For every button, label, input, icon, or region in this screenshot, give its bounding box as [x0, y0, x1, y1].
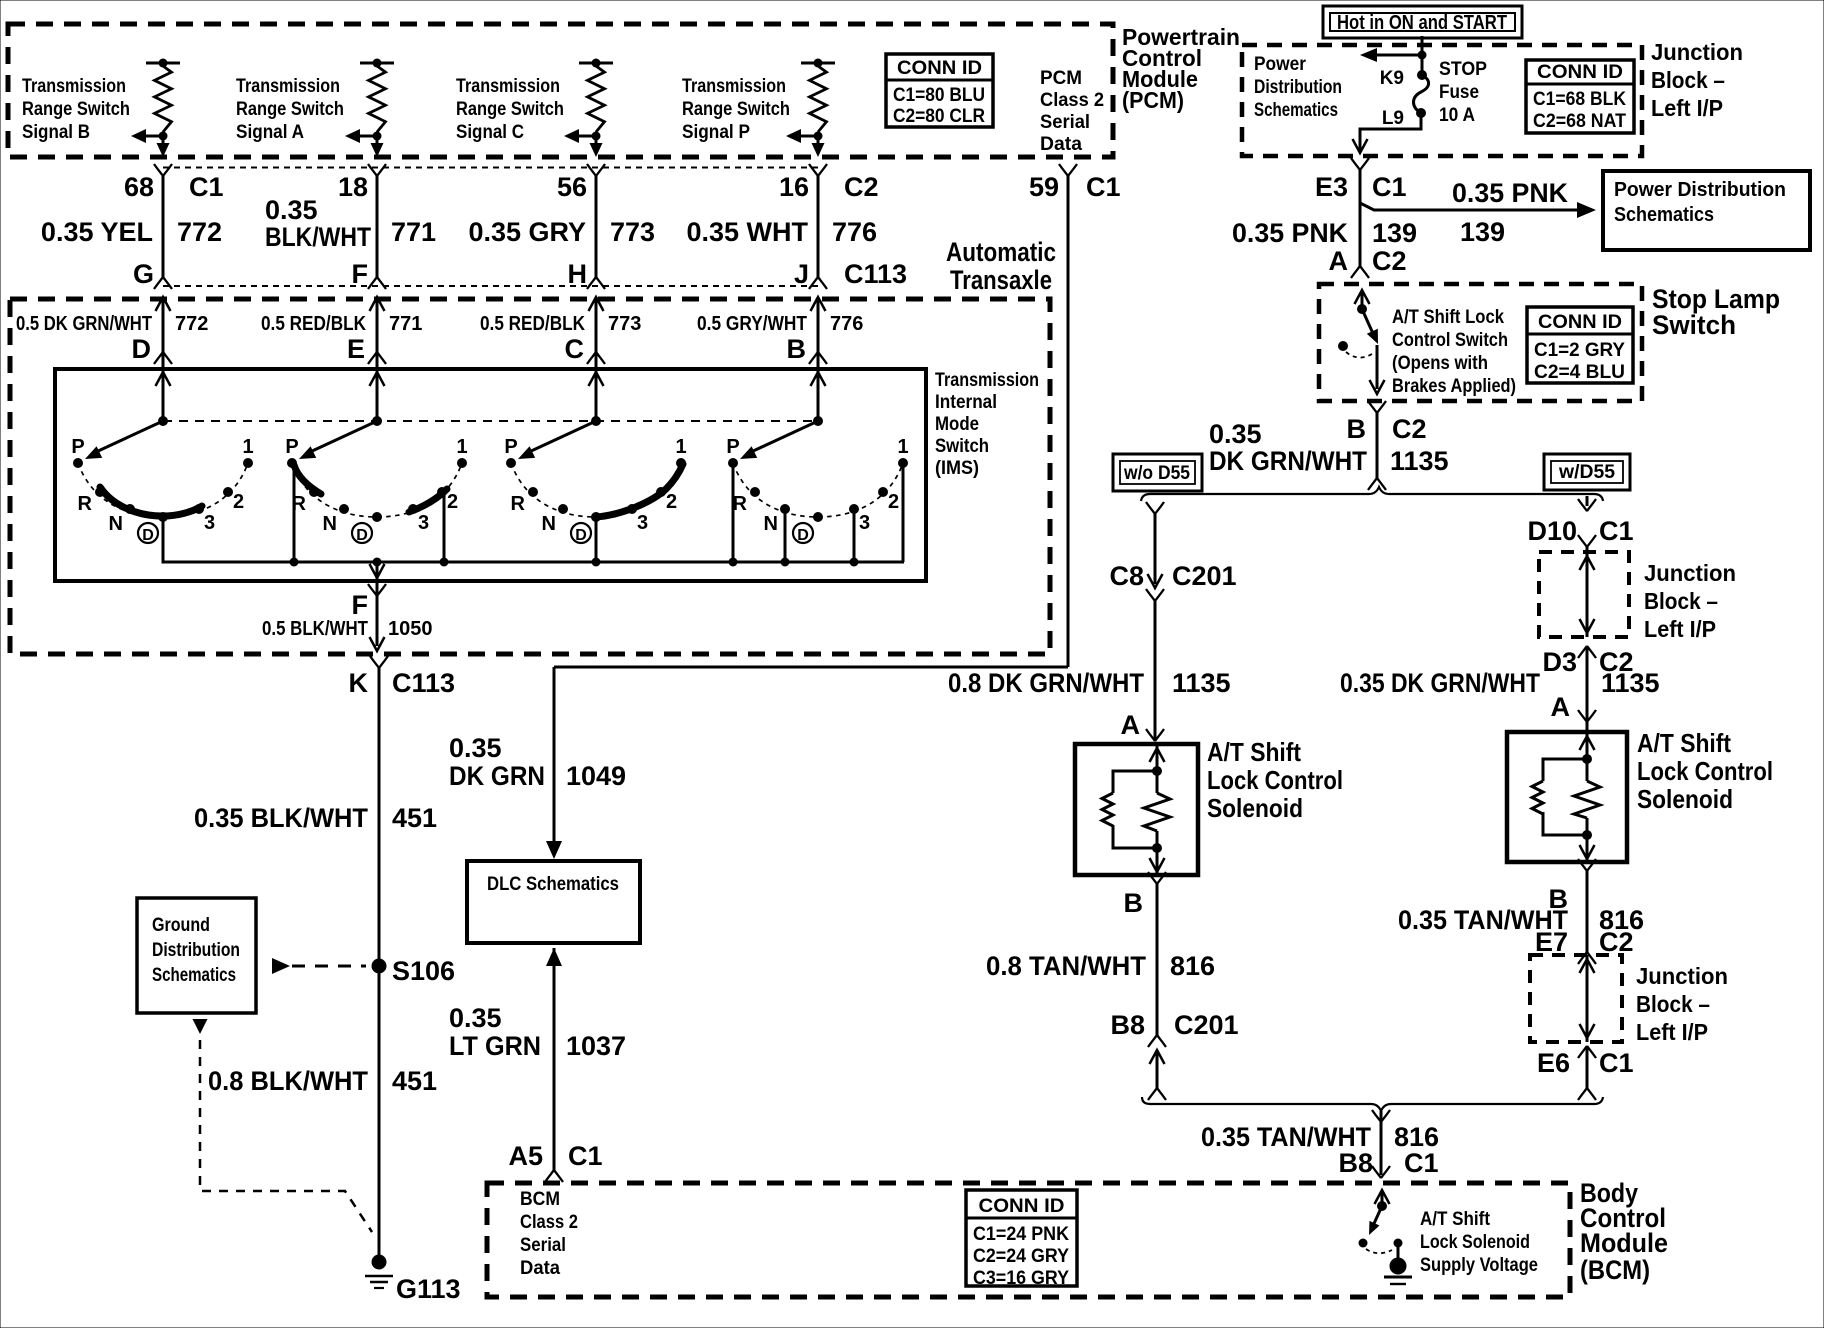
wire label 0.35 PNK 139 (branch) — [1452, 178, 1568, 247]
connector fork C (transaxle side) — [587, 352, 605, 364]
svg-text:B: B — [1124, 888, 1144, 918]
svg-text:Range Switch: Range Switch — [456, 99, 564, 120]
svg-text:139: 139 — [1372, 218, 1417, 248]
wire label 0.35 GRY 773 — [468, 217, 655, 247]
svg-text:Junction: Junction — [1644, 560, 1736, 586]
svg-text:Distribution: Distribution — [1254, 77, 1342, 98]
svg-text:2: 2 — [447, 491, 458, 513]
svg-text:D: D — [575, 527, 587, 544]
svg-text:E7: E7 — [1535, 927, 1568, 957]
label: PCM Class 2 Serial Data — [1040, 68, 1104, 155]
svg-text:Block –: Block – — [1651, 67, 1725, 93]
label: Transmission Range Switch Signal C — [456, 76, 564, 143]
svg-text:Class 2: Class 2 — [520, 1212, 578, 1233]
pin label A5 C1 — [508, 1141, 602, 1171]
svg-text:Distribution: Distribution — [152, 940, 240, 961]
wire 1050: IMS output F to K C113 — [368, 562, 386, 651]
svg-text:1135: 1135 — [1390, 446, 1449, 476]
svg-text:Data: Data — [1040, 134, 1082, 155]
svg-text:C3=16 GRY: C3=16 GRY — [973, 1268, 1069, 1289]
wire 771: PCM pin 18 to C113 pin F — [368, 164, 386, 421]
svg-text:0.35: 0.35 — [449, 733, 502, 763]
pin label 59 C1 — [1029, 172, 1121, 202]
svg-text:F: F — [352, 590, 369, 620]
Ground Distribution Schematics box — [137, 898, 256, 1013]
svg-text:(PCM): (PCM) — [1122, 87, 1184, 113]
svg-text:0.5 RED/BLK: 0.5 RED/BLK — [261, 313, 366, 335]
svg-text:C1: C1 — [189, 172, 224, 202]
pin label A C2 — [1329, 246, 1407, 276]
svg-text:P: P — [71, 436, 84, 458]
pin label E3 C1 — [1315, 172, 1407, 202]
svg-text:C1: C1 — [568, 1141, 603, 1171]
svg-text:B8: B8 — [1110, 1010, 1145, 1040]
wire label 0.35 TAN/WHT 816 — [1398, 905, 1644, 935]
svg-text:1037: 1037 — [566, 1031, 626, 1061]
wire label 0.35 LT GRN 1037 — [449, 1003, 626, 1061]
svg-text:A5: A5 — [508, 1141, 543, 1171]
svg-text:A/T Shift: A/T Shift — [1420, 1209, 1491, 1230]
svg-text:0.35 WHT: 0.35 WHT — [686, 217, 808, 247]
pin label E6 C1 — [1537, 1048, 1634, 1078]
resistor: Transmission Range Switch Signal P pull-up — [786, 59, 835, 158]
wire label 0.5 DK GRN/WHT 772 (transaxle side) — [16, 313, 208, 364]
pin label A (solenoid, w/o D55) — [1121, 710, 1141, 740]
IMS rotary switch wafer 2 (signal A): contacts P-R and 3-2 closed — [287, 369, 467, 567]
svg-text:B: B — [787, 334, 807, 364]
svg-text:0.35 PNK: 0.35 PNK — [1232, 218, 1348, 248]
svg-text:DLC Schematics: DLC Schematics — [487, 874, 619, 895]
Hot in ON and START box — [1323, 6, 1522, 38]
harness merge brace to B8 C1 — [1142, 1097, 1603, 1111]
svg-text:139: 139 — [1460, 217, 1505, 247]
svg-text:Schematics: Schematics — [1254, 100, 1338, 121]
svg-text:STOP: STOP — [1439, 59, 1487, 80]
svg-text:Solenoid: Solenoid — [1637, 784, 1733, 814]
svg-text:B8: B8 — [1338, 1148, 1373, 1178]
svg-text:A: A — [1121, 710, 1141, 740]
svg-text:0.35: 0.35 — [265, 195, 318, 225]
svg-text:3: 3 — [637, 512, 648, 534]
svg-text:Signal B: Signal B — [22, 122, 90, 143]
pin label 56 — [557, 172, 587, 202]
svg-text:BLK/WHT: BLK/WHT — [265, 222, 371, 252]
svg-text:C2=80 CLR: C2=80 CLR — [893, 106, 985, 127]
svg-text:68: 68 — [124, 172, 154, 202]
svg-text:C1=80 BLU: C1=80 BLU — [893, 85, 985, 106]
wire 1135 left branch to C8 C201 — [1146, 502, 1164, 741]
label: Junction Block - Left I/P (lower right) — [1636, 963, 1728, 1045]
svg-text:451: 451 — [392, 1066, 437, 1096]
wire: E6 C1 to merge brace — [1578, 1046, 1596, 1100]
pin label J / C113 — [794, 259, 907, 289]
svg-text:0.35: 0.35 — [1209, 419, 1262, 449]
svg-text:0.35 PNK: 0.35 PNK — [1452, 178, 1568, 208]
svg-text:Data: Data — [520, 1258, 560, 1279]
svg-text:D10: D10 — [1527, 516, 1577, 546]
pin label H / C113 — [568, 259, 588, 289]
wire 772: PCM pin 68 to C113 pin G — [154, 164, 172, 421]
wire 816: right solenoid B to E7 C2 (0.35 TAN/WHT) — [1578, 859, 1596, 964]
svg-text:Junction: Junction — [1636, 963, 1728, 989]
pin label B C2 — [1347, 414, 1427, 444]
A/T Shift Lock Control Solenoid (w/o D55) — [1075, 744, 1198, 875]
svg-text:18: 18 — [338, 172, 368, 202]
label: Transmission Internal Mode Switch (IMS) — [935, 370, 1039, 479]
IMS switch assembly box — [55, 369, 926, 581]
option tag box: w/D55 — [1544, 454, 1630, 490]
label: Junction Block - Left I/P (upper right) — [1644, 560, 1736, 642]
wire from Hot feed into fuse block — [1418, 36, 1427, 75]
pin label B (right solenoid) — [1549, 884, 1569, 914]
svg-text:1: 1 — [897, 436, 908, 458]
wire 1135: D3 C2 to solenoid A (0.35 DK GRN/WHT) — [1578, 646, 1596, 732]
svg-text:K: K — [349, 668, 369, 698]
svg-text:Internal: Internal — [935, 392, 997, 413]
svg-text:771: 771 — [389, 313, 422, 335]
svg-text:D: D — [797, 527, 809, 544]
BCM internal switch: A/T shift lock solenoid supply — [1359, 1190, 1403, 1258]
svg-text:C113: C113 — [392, 668, 455, 698]
svg-text:G: G — [133, 259, 154, 289]
svg-text:G113: G113 — [396, 1274, 461, 1304]
wire label 0.35 771 — [265, 195, 436, 252]
svg-text:772: 772 — [177, 217, 222, 247]
label: BCM Class 2 Serial Data — [520, 1189, 578, 1279]
wire 773: PCM pin 56 to C113 pin H — [587, 164, 605, 421]
ground G113 — [365, 1255, 461, 1305]
IMS rotary switch wafer 4 (signal P): open, taps P N 3 1 — [728, 369, 908, 567]
IMS internal dashed control line — [163, 420, 818, 422]
pin label K / C113 — [349, 668, 456, 698]
svg-text:2: 2 — [888, 491, 899, 513]
svg-text:Power Distribution: Power Distribution — [1614, 179, 1786, 201]
svg-text:CONN ID: CONN ID — [897, 58, 982, 79]
svg-text:LT GRN: LT GRN — [449, 1031, 541, 1061]
CONN ID box (BCM): C1=24 PNK, C2=24 GRY, C3=16 GRY — [966, 1190, 1077, 1289]
svg-text:Serial: Serial — [1040, 112, 1090, 133]
svg-text:Signal C: Signal C — [456, 122, 524, 143]
wire label 0.8 BLK/WHT 451 — [208, 1066, 437, 1096]
svg-text:F: F — [352, 259, 369, 289]
label: A/T Shift Lock Control Solenoid (left) — [1207, 737, 1343, 823]
wire 1037: BCM A5 C1 to DLC — [545, 948, 563, 1182]
svg-text:C1: C1 — [1404, 1148, 1439, 1178]
wire 1049: PCM pin 59 C1 class 2 serial data — [546, 164, 1077, 859]
svg-text:C2=24 GRY: C2=24 GRY — [973, 1246, 1069, 1267]
svg-text:R: R — [292, 493, 307, 515]
label: Junction Block - Left I/P — [1651, 39, 1743, 121]
svg-text:Range Switch: Range Switch — [22, 99, 130, 120]
svg-text:Switch: Switch — [1652, 310, 1736, 340]
svg-text:1: 1 — [675, 436, 686, 458]
pin label F — [352, 590, 369, 620]
svg-text:0.8 BLK/WHT: 0.8 BLK/WHT — [208, 1066, 368, 1096]
svg-text:Module: Module — [1580, 1228, 1668, 1258]
svg-text:C1: C1 — [1372, 172, 1407, 202]
dashed ground path from Ground Distribution box to G113 — [193, 1019, 373, 1232]
wire label 0.5 RED/BLK 771 (transaxle side) — [261, 313, 422, 364]
arrow to power distribution schematics — [1360, 48, 1422, 62]
svg-text:P: P — [285, 436, 298, 458]
svg-text:E: E — [347, 334, 365, 364]
svg-text:J: J — [794, 259, 809, 289]
wire label 0.8 DK GRN/WHT 1135 — [948, 668, 1231, 698]
svg-text:0.35 DK GRN/WHT: 0.35 DK GRN/WHT — [1340, 668, 1540, 698]
svg-text:Range Switch: Range Switch — [236, 99, 344, 120]
CONN ID box (stop lamp switch): C1=2 GRY, C2=4 BLU — [1527, 307, 1633, 383]
svg-text:Left I/P: Left I/P — [1636, 1019, 1708, 1045]
svg-text:0.5 BLK/WHT: 0.5 BLK/WHT — [262, 618, 368, 640]
svg-text:A/T Shift: A/T Shift — [1207, 737, 1301, 767]
svg-text:A/T Shift: A/T Shift — [1637, 728, 1731, 758]
svg-text:3: 3 — [859, 512, 870, 534]
svg-text:Transmission: Transmission — [682, 76, 786, 97]
BCM internal supply symbol (filled circle + ground bars) — [1384, 1258, 1412, 1285]
pin label G / C113 — [133, 259, 154, 289]
label K9 / L9 — [1380, 68, 1404, 129]
wire 776: PCM pin 16 to C113 pin J — [809, 164, 827, 421]
svg-text:Left I/P: Left I/P — [1651, 95, 1723, 121]
Body Control Module dashed box — [487, 1183, 1570, 1297]
svg-text:Solenoid: Solenoid — [1207, 793, 1303, 823]
svg-text:Control Switch: Control Switch — [1392, 330, 1508, 351]
dashed link: Ground Distribution Schematics to splice S106 — [272, 958, 366, 974]
IMS rotary switch wafer 3 (signal C): contact D-3-2-1 closed — [506, 369, 686, 567]
IMS rotary switch wafer 1 (signal B): contact R-N-D-3 closed — [73, 369, 253, 562]
Junction Block - Left I/P dashed box (D10/D3) — [1539, 552, 1629, 637]
svg-text:1135: 1135 — [1601, 668, 1660, 698]
label: Powertrain Control Module (PCM) — [1122, 24, 1240, 113]
svg-text:C2: C2 — [844, 172, 879, 202]
svg-text:Transmission: Transmission — [22, 76, 126, 97]
svg-text:10 A: 10 A — [1439, 105, 1475, 126]
svg-text:C8: C8 — [1109, 561, 1144, 591]
STOP fuse 10A (K9-L9) — [1414, 70, 1429, 118]
svg-text:B: B — [1347, 414, 1367, 444]
svg-text:0.5 GRY/WHT: 0.5 GRY/WHT — [697, 313, 807, 335]
Automatic Transaxle dashed box — [10, 299, 1050, 654]
svg-text:Serial: Serial — [520, 1235, 566, 1256]
svg-text:C113: C113 — [844, 259, 907, 289]
IMS wafer 1 position labels — [71, 436, 253, 544]
wire label 0.5 RED/BLK 773 (transaxle side) — [480, 313, 641, 364]
svg-text:CONN ID: CONN ID — [1537, 62, 1623, 83]
IMS wafer 3 position labels — [504, 436, 686, 544]
pin label C8 C201 — [1109, 561, 1236, 591]
svg-text:771: 771 — [391, 217, 436, 247]
svg-text:Transmission: Transmission — [236, 76, 340, 97]
svg-text:Lock Control: Lock Control — [1637, 756, 1773, 786]
svg-text:0.35 GRY: 0.35 GRY — [468, 217, 586, 247]
svg-text:0.35 YEL: 0.35 YEL — [41, 217, 153, 247]
svg-text:3: 3 — [204, 512, 215, 534]
svg-text:2: 2 — [666, 491, 677, 513]
svg-text:1135: 1135 — [1172, 668, 1231, 698]
svg-text:0.5 RED/BLK: 0.5 RED/BLK — [480, 313, 585, 335]
CONN ID box (PCM): C1=80 BLU, C2=80 CLR — [886, 54, 993, 127]
splice S106 — [372, 956, 456, 986]
Power Distribution Schematics box — [1603, 171, 1810, 250]
svg-text:Range Switch: Range Switch — [682, 99, 790, 120]
pin label A (solenoid, w/D55) — [1551, 692, 1571, 722]
wire 1135 right branch to D10 C1 — [1578, 496, 1596, 552]
svg-text:Class 2: Class 2 — [1040, 90, 1104, 111]
label: A/T Shift Lock Control Switch (Opens with Brakes Applied) — [1392, 307, 1516, 397]
svg-text:1: 1 — [242, 436, 253, 458]
svg-text:S106: S106 — [392, 956, 455, 986]
svg-text:A: A — [1329, 246, 1349, 276]
svg-text:R: R — [511, 493, 526, 515]
resistor: Transmission Range Switch Signal A pull-up — [345, 59, 394, 158]
svg-text:DK GRN/WHT: DK GRN/WHT — [1209, 446, 1367, 476]
Stop Lamp Switch dashed box — [1319, 284, 1642, 401]
svg-text:CONN ID: CONN ID — [1538, 312, 1622, 333]
svg-text:59: 59 — [1029, 172, 1059, 202]
label: Body Control Module (BCM) — [1580, 1178, 1668, 1285]
svg-text:E6: E6 — [1537, 1048, 1570, 1078]
svg-text:0.8 TAN/WHT: 0.8 TAN/WHT — [986, 951, 1146, 981]
A/T shift lock control switch (opens with brakes applied) — [1338, 290, 1385, 394]
svg-text:Schematics: Schematics — [1614, 204, 1714, 226]
wire 816: merged to BCM B8 C1 (0.35 TAN/WHT) — [1372, 1110, 1390, 1178]
svg-text:Block –: Block – — [1636, 991, 1710, 1017]
svg-text:Transmission: Transmission — [935, 370, 1039, 391]
svg-text:1: 1 — [456, 436, 467, 458]
svg-text:DK GRN: DK GRN — [449, 761, 545, 791]
pin label D3 C2 — [1542, 647, 1633, 677]
svg-text:451: 451 — [392, 803, 437, 833]
connector fork E (transaxle side) — [368, 352, 386, 364]
A/T Shift Lock Control Solenoid (w/D55) — [1507, 732, 1627, 862]
CONN ID box (junction block): C1=68 BLK, C2=68 NAT — [1526, 60, 1634, 133]
resistor: Transmission Range Switch Signal B pull-up — [131, 59, 180, 158]
connector bar C113 (harness side, thin dashed) — [163, 285, 818, 287]
pin label D10 C1 — [1527, 516, 1633, 546]
svg-text:Transmission: Transmission — [456, 76, 560, 97]
pin label B8 C201 — [1110, 1010, 1238, 1040]
label: Automatic Transaxle — [946, 237, 1056, 295]
svg-text:Ground: Ground — [152, 915, 210, 936]
label STOP Fuse 10 A — [1439, 59, 1487, 126]
svg-text:R: R — [78, 493, 93, 515]
svg-text:L9: L9 — [1382, 108, 1404, 129]
svg-text:D: D — [142, 527, 154, 544]
svg-text:Lock Solenoid: Lock Solenoid — [1420, 1232, 1530, 1253]
harness split brace (w/o D55 vs w/D55) — [1141, 487, 1603, 501]
connector fork D (transaxle side) — [154, 352, 172, 364]
wire label 0.35 TAN/WHT 816 (merged) — [1201, 1122, 1439, 1152]
svg-text:Switch: Switch — [935, 436, 989, 457]
svg-text:0.8 DK GRN/WHT: 0.8 DK GRN/WHT — [948, 668, 1144, 698]
svg-text:0.35: 0.35 — [449, 1003, 502, 1033]
pin label E7 C2 — [1535, 927, 1634, 957]
svg-text:Signal A: Signal A — [236, 122, 304, 143]
svg-text:P: P — [504, 436, 517, 458]
svg-text:C2=4 BLU: C2=4 BLU — [1534, 362, 1625, 383]
label: A/T Shift Lock Control Solenoid (right) — [1637, 728, 1773, 814]
svg-text:C1: C1 — [1086, 172, 1121, 202]
svg-text:C1=24 PNK: C1=24 PNK — [973, 1224, 1069, 1245]
pin label 18 — [338, 172, 368, 202]
svg-text:C1=68 BLK: C1=68 BLK — [1533, 89, 1626, 110]
pin label B (left solenoid) — [1124, 888, 1144, 918]
svg-text:Hot in ON and START: Hot in ON and START — [1337, 12, 1507, 34]
svg-text:0.5 DK GRN/WHT: 0.5 DK GRN/WHT — [16, 313, 152, 335]
svg-text:D3: D3 — [1542, 647, 1577, 677]
label: Transmission Range Switch Signal P — [682, 76, 790, 143]
svg-text:1050: 1050 — [388, 618, 433, 640]
svg-text:Schematics: Schematics — [152, 965, 236, 986]
svg-text:N: N — [764, 513, 778, 535]
wire label 0.5 BLK/WHT 1050 — [262, 618, 433, 640]
wire label 0.35 YEL 772 — [41, 217, 222, 247]
PCM module dashed box — [8, 24, 1113, 157]
svg-text:3: 3 — [418, 512, 429, 534]
svg-text:(BCM): (BCM) — [1580, 1255, 1650, 1285]
wire label 0.35 DK GRN/WHT 1135 (right) — [1340, 668, 1660, 698]
svg-text:C2: C2 — [1599, 927, 1634, 957]
label: Power Distribution Schematics (fuse feed) — [1254, 54, 1342, 121]
label: Stop Lamp Switch — [1652, 284, 1780, 340]
svg-text:816: 816 — [1170, 951, 1215, 981]
svg-text:1049: 1049 — [566, 761, 626, 791]
svg-text:C201: C201 — [1172, 561, 1237, 591]
svg-text:Power: Power — [1254, 54, 1307, 75]
svg-text:H: H — [568, 259, 588, 289]
svg-text:A/T Shift Lock: A/T Shift Lock — [1392, 307, 1504, 328]
svg-text:C1=2 GRY: C1=2 GRY — [1534, 340, 1625, 361]
Junction Block - Left I/P dashed box (E7/E6) — [1530, 955, 1622, 1042]
option tag box: w/o D55 — [1113, 454, 1202, 491]
wire 1135: stop lamp switch B C2 (0.35 DK GRN/WHT) — [1368, 401, 1386, 490]
pin label 16 — [779, 172, 879, 202]
svg-text:C2: C2 — [1372, 246, 1407, 276]
svg-text:w/o D55: w/o D55 — [1123, 463, 1190, 484]
wire label 0.35 DK GRN 1049 — [449, 733, 626, 791]
wire label 0.35 BLK/WHT 451 — [194, 803, 437, 833]
svg-text:776: 776 — [832, 217, 877, 247]
svg-text:776: 776 — [830, 313, 863, 335]
svg-text:Supply Voltage: Supply Voltage — [1420, 1255, 1538, 1276]
wire 451: K C113 down to G113 ground — [370, 656, 388, 1258]
wire label 0.8 TAN/WHT 816 — [986, 951, 1215, 981]
svg-text:(IMS): (IMS) — [935, 458, 979, 479]
svg-text:D: D — [356, 527, 368, 544]
pin label F / C113 — [352, 259, 369, 289]
fuse output wire exiting junction block — [1353, 113, 1422, 153]
resistor: Transmission Range Switch Signal C pull-up — [564, 59, 613, 158]
svg-text:Fuse: Fuse — [1439, 82, 1479, 103]
svg-text:C2=68 NAT: C2=68 NAT — [1533, 111, 1626, 132]
svg-text:N: N — [542, 513, 556, 535]
svg-text:w/D55: w/D55 — [1558, 462, 1615, 483]
wire 816: solenoid B to B8 C201 (0.8 TAN/WHT) — [1148, 872, 1166, 1100]
svg-text:PCM: PCM — [1040, 68, 1082, 89]
wire 139: fuse output E3 C1 to stop lamp switch A C2 (0.35 PNK) — [1351, 158, 1369, 278]
svg-text:(Opens with: (Opens with — [1392, 353, 1488, 374]
pin label B8 C1 — [1338, 1148, 1438, 1178]
label: Transmission Range Switch Signal A — [236, 76, 344, 143]
wire label 0.35 DK GRN/WHT 1135 — [1209, 419, 1449, 476]
svg-text:C: C — [565, 334, 585, 364]
svg-text:P: P — [726, 436, 739, 458]
svg-text:Signal P: Signal P — [682, 122, 750, 143]
svg-text:R: R — [733, 493, 748, 515]
DLC Schematics box — [467, 861, 640, 943]
svg-text:K9: K9 — [1380, 68, 1404, 89]
pin label 68 — [124, 172, 224, 202]
